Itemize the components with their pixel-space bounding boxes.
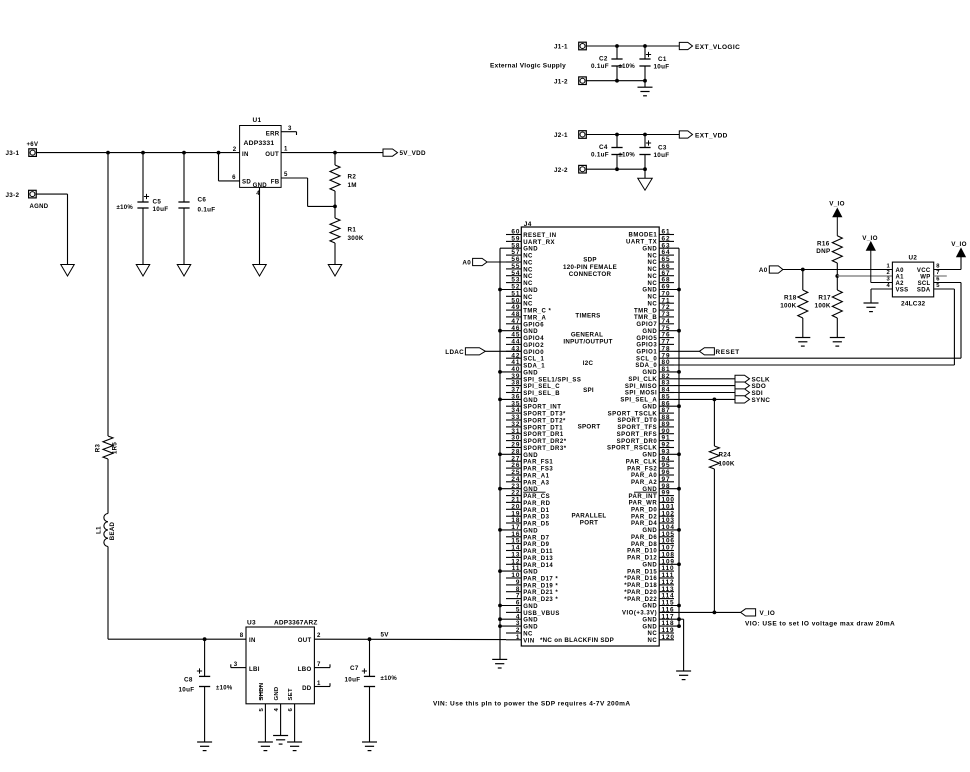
svg-text:+6V: +6V bbox=[27, 142, 39, 148]
J4 pin 98 GND bbox=[642, 483, 679, 493]
svg-text:1M: 1M bbox=[348, 182, 357, 189]
svg-text:24LC32: 24LC32 bbox=[901, 300, 926, 307]
wire 5V from U3 OUT to J4 VIN pin 1 bbox=[314, 638, 506, 640]
J4 pin 32 SPORT_DT1 bbox=[506, 421, 563, 431]
regulator U3 ADP3367ARZ body bbox=[246, 620, 318, 704]
svg-text:2: 2 bbox=[233, 146, 237, 153]
J4 pin 11 GND bbox=[500, 565, 538, 575]
svg-text:PAR_D10: PAR_D10 bbox=[627, 549, 657, 555]
J4 pin 84 SPI_MOSI bbox=[625, 387, 674, 397]
svg-text:10uF: 10uF bbox=[654, 152, 670, 159]
svg-text:NC: NC bbox=[523, 632, 533, 638]
svg-text:TMR_B: TMR_B bbox=[634, 315, 657, 321]
svg-text:SPORT_DT0: SPORT_DT0 bbox=[617, 418, 657, 424]
left ground bus of J4 bbox=[499, 248, 501, 659]
svg-text:*PAR_D22: *PAR_D22 bbox=[624, 597, 657, 603]
wire U2 VCC to V_IO bbox=[934, 257, 961, 270]
svg-text:C5: C5 bbox=[153, 199, 162, 206]
svg-text:SCL_1: SCL_1 bbox=[523, 357, 544, 363]
svg-text:PAR_D21 *: PAR_D21 * bbox=[523, 590, 558, 596]
J4 pin 1 VIN bbox=[506, 634, 535, 644]
power symbol V_IO at U2 VCC bbox=[951, 241, 967, 257]
J4 pin 51 NC bbox=[506, 290, 533, 300]
svg-text:R18: R18 bbox=[784, 295, 797, 302]
svg-text:V_IO: V_IO bbox=[951, 241, 967, 248]
J4 pin 24 PAR_A3 bbox=[506, 476, 550, 486]
J4 pin 82 SPI_CLK bbox=[628, 373, 674, 383]
svg-text:GND: GND bbox=[523, 288, 538, 294]
svg-text:V_IO: V_IO bbox=[862, 235, 878, 242]
svg-text:PAR_FS3: PAR_FS3 bbox=[523, 467, 553, 473]
J4 pin 97 PAR_A2 bbox=[631, 476, 674, 486]
svg-text:SPORT: SPORT bbox=[578, 423, 601, 430]
svg-text:GND: GND bbox=[642, 528, 657, 534]
svg-text:GPIO1: GPIO1 bbox=[636, 350, 657, 356]
flag RESET from J4 pin 78 GPIO1 bbox=[674, 348, 740, 356]
svg-text:PAR_D8: PAR_D8 bbox=[631, 542, 657, 548]
ground below R1 bbox=[328, 265, 342, 277]
svg-text:NC: NC bbox=[648, 638, 658, 644]
svg-text:SPI_SEL1/SPI_SS: SPI_SEL1/SPI_SS bbox=[523, 377, 581, 383]
wire J2-2 return bbox=[586, 168, 645, 170]
svg-text:VIO(+3.3V): VIO(+3.3V) bbox=[622, 611, 657, 617]
J4 pin 42 SCL_1 bbox=[506, 352, 545, 362]
svg-text:120-PIN FEMALE: 120-PIN FEMALE bbox=[563, 264, 617, 271]
connector J3-2 (AGND) bbox=[6, 190, 49, 210]
ground below U1 pin 4 bbox=[253, 265, 267, 277]
junction A1/R16/R17 bbox=[835, 274, 839, 278]
svg-text:PAR_A0: PAR_A0 bbox=[631, 473, 657, 479]
svg-text:LBO: LBO bbox=[298, 666, 312, 673]
J4 pin 91 SPORT_DR0 bbox=[617, 435, 674, 445]
svg-text:1R5: 1R5 bbox=[112, 442, 119, 454]
junction right bus pin 75 bbox=[677, 329, 681, 333]
J4 pin 39 SPI_SEL1/SPI_SS bbox=[506, 373, 581, 383]
J4 pin 75 GND bbox=[642, 325, 679, 335]
junction right bus pin 115 bbox=[677, 604, 681, 608]
svg-text:GND: GND bbox=[642, 453, 657, 459]
junction J1-1/C2 bbox=[615, 44, 619, 48]
svg-text:SPORT_DT2*: SPORT_DT2* bbox=[523, 419, 566, 425]
svg-text:CONNECTOR: CONNECTOR bbox=[569, 271, 612, 278]
svg-text:VCC: VCC bbox=[917, 268, 931, 274]
junction left bus pin 6 bbox=[498, 604, 502, 608]
svg-text:UART_TX: UART_TX bbox=[626, 240, 657, 246]
svg-text:NC: NC bbox=[648, 274, 658, 280]
svg-text:SCL: SCL bbox=[918, 281, 931, 287]
inductor L1 BEAD bbox=[96, 514, 116, 547]
resistor R2 1M bbox=[330, 153, 357, 207]
svg-text:100K: 100K bbox=[719, 461, 735, 468]
J4 pin 73 TMR_B bbox=[634, 311, 674, 321]
ground below C7 bbox=[362, 741, 377, 743]
svg-text:External Vlogic Supply: External Vlogic Supply bbox=[490, 63, 566, 70]
J4 pin 62 UART_TX bbox=[626, 236, 674, 246]
U3 GND pin 4 to ground bbox=[280, 704, 282, 736]
J4 pin 25 PAR_A1 bbox=[506, 469, 550, 479]
J4 pin 19 PAR_D3 bbox=[506, 510, 550, 520]
svg-text:A0: A0 bbox=[759, 267, 768, 274]
output flag SDO from J4 pin 83 bbox=[674, 382, 766, 390]
output flag SYNC from J4 pin 85 bbox=[674, 396, 770, 404]
svg-text:120: 120 bbox=[662, 634, 675, 641]
U2 pin numbers bbox=[886, 264, 940, 290]
wire V_IO to U2 pin 3 A2 bbox=[871, 282, 893, 284]
J4 pin 15 PAR_D9 bbox=[506, 538, 550, 548]
svg-text:2: 2 bbox=[317, 632, 321, 639]
junction right bus pin 86 bbox=[677, 404, 681, 408]
input flag A0 to U2 bbox=[759, 266, 783, 274]
junction J1-2/C1 bbox=[643, 79, 647, 83]
J4 pin 23 GND bbox=[500, 483, 538, 493]
svg-text:ADP3367ARZ: ADP3367ARZ bbox=[274, 620, 318, 627]
svg-text:LBI: LBI bbox=[249, 666, 260, 673]
J4 pin 87 SPORT_TSCLK bbox=[608, 407, 674, 417]
svg-text:10uF: 10uF bbox=[153, 206, 169, 213]
J4 pin 40 GND bbox=[500, 366, 538, 376]
junction A0/R18 bbox=[801, 268, 805, 272]
svg-text:NC: NC bbox=[648, 295, 658, 301]
J4 pin 27 PAR_FS1 bbox=[506, 455, 553, 465]
svg-text:0.1uF: 0.1uF bbox=[591, 63, 609, 70]
capacitor C1 10uF bbox=[639, 46, 669, 81]
J4 pin 120 NC bbox=[648, 634, 675, 644]
svg-text:NC: NC bbox=[523, 295, 533, 301]
svg-text:SDA_0: SDA_0 bbox=[635, 363, 657, 369]
wire SCL_0 route to U2 SCL bbox=[674, 283, 961, 359]
J4 pin 53 NC bbox=[506, 277, 533, 287]
svg-text:NC: NC bbox=[523, 261, 533, 267]
svg-text:PAR_D14: PAR_D14 bbox=[523, 563, 553, 569]
svg-text:V_IO: V_IO bbox=[829, 200, 845, 207]
J4 pin 61 BMODE1 bbox=[629, 229, 674, 239]
junction right bus pin 93 bbox=[677, 452, 681, 456]
svg-text:SPORT_TFS: SPORT_TFS bbox=[617, 425, 657, 431]
ground below left bus bbox=[492, 658, 507, 660]
svg-text:GPIO0: GPIO0 bbox=[523, 350, 544, 356]
svg-text:C3: C3 bbox=[658, 144, 667, 151]
svg-text:SD: SD bbox=[242, 179, 251, 186]
J4 pin 41 SDA_1 bbox=[506, 359, 545, 369]
svg-text:GND: GND bbox=[523, 329, 538, 335]
U3 LBO stub pin 7 bbox=[314, 664, 330, 667]
J4 pin 34 SPORT_DT3* bbox=[506, 407, 566, 417]
J4 pin 89 SPORT_TFS bbox=[617, 421, 674, 431]
svg-text:VSS: VSS bbox=[896, 287, 909, 293]
J4 pin 6 GND bbox=[500, 600, 538, 610]
resistor R16 DNP bbox=[816, 236, 842, 276]
svg-text:4: 4 bbox=[256, 190, 260, 197]
resistor R18 100K bbox=[780, 270, 808, 338]
J4 pin 92 SPORT_RSCLK bbox=[607, 442, 674, 452]
svg-text:FB: FB bbox=[271, 179, 280, 186]
svg-text:GPIO2: GPIO2 bbox=[523, 343, 544, 349]
J4 pin 85 SPI_SEL_A bbox=[620, 394, 674, 404]
J4 pin 109 GND bbox=[642, 558, 679, 568]
junction right bus pin 81 bbox=[677, 370, 681, 374]
J4 pin 114 *PAR_D22 bbox=[624, 593, 674, 603]
wire +6V net from J3-1 to U1 IN bbox=[36, 152, 240, 154]
J4 pin 68 NC bbox=[648, 277, 674, 287]
svg-text:TMR_C *: TMR_C * bbox=[523, 309, 551, 315]
svg-text:PAR_D15: PAR_D15 bbox=[627, 569, 657, 575]
svg-text:PAR_RD: PAR_RD bbox=[523, 501, 550, 507]
svg-text:PAR_A3: PAR_A3 bbox=[523, 480, 549, 486]
svg-text:PAR_FS2: PAR_FS2 bbox=[627, 466, 657, 472]
junction J2-2/C4 bbox=[615, 167, 619, 171]
svg-text:VIN: Use this pIn to power the: VIN: Use this pIn to power the SDP requi… bbox=[433, 700, 631, 707]
connector J2-1 bbox=[554, 131, 586, 139]
ground below C5 bbox=[136, 265, 150, 277]
J4 pin 8 PAR_D21 * bbox=[506, 586, 558, 596]
resistor R24 100K bbox=[709, 399, 735, 612]
J4 pin 7 PAR_D23 * bbox=[506, 593, 558, 603]
U3 SET pin 6 to ground bbox=[294, 704, 296, 742]
J4 pin 5 USB_VBUS bbox=[506, 607, 560, 617]
wire +6V vertical feed to U3 bbox=[107, 153, 109, 436]
junction left bus pin 3 bbox=[498, 624, 502, 628]
svg-text:ERR: ERR bbox=[266, 131, 280, 138]
svg-text:SCL_0: SCL_0 bbox=[636, 356, 657, 362]
J4 pin 22 PAR_CS bbox=[506, 490, 550, 500]
J4 pin 80 SDA_0 bbox=[635, 359, 674, 369]
svg-text:*PAR_D18: *PAR_D18 bbox=[624, 583, 657, 589]
svg-text:PAR_D9: PAR_D9 bbox=[523, 542, 549, 548]
svg-text:GND: GND bbox=[523, 370, 538, 376]
output flag SDI from J4 pin 84 bbox=[674, 389, 763, 397]
svg-text:C2: C2 bbox=[599, 56, 608, 63]
junction J2-1/C3 bbox=[643, 133, 647, 137]
svg-text:±10%: ±10% bbox=[216, 686, 233, 692]
svg-text:BEAD: BEAD bbox=[109, 521, 116, 540]
svg-text:TMR_D: TMR_D bbox=[634, 308, 657, 314]
svg-text:TMR_A: TMR_A bbox=[523, 315, 546, 321]
J4 pin 79 SCL_0 bbox=[636, 352, 674, 362]
svg-text:SPI_SEL_A: SPI_SEL_A bbox=[620, 398, 657, 404]
J4 pin 49 TMR_C * bbox=[506, 304, 552, 314]
J4 pin 71 NC bbox=[648, 297, 674, 307]
J4 pin 115 GND bbox=[642, 600, 679, 610]
U3 pin numbers bbox=[234, 632, 321, 712]
svg-text:7: 7 bbox=[936, 270, 940, 276]
svg-text:±10%: ±10% bbox=[619, 64, 636, 70]
svg-text:0.1uF: 0.1uF bbox=[591, 152, 609, 159]
svg-text:GND: GND bbox=[642, 604, 657, 610]
J4 pin 76 GPIO5 bbox=[636, 332, 674, 342]
svg-text:NC: NC bbox=[648, 267, 658, 273]
svg-text:BMODE1: BMODE1 bbox=[629, 233, 658, 239]
J4 pin 43 GPIO0 bbox=[506, 345, 544, 355]
svg-text:UART_RX: UART_RX bbox=[523, 240, 555, 246]
wire L1 to U3 IN bbox=[108, 547, 246, 640]
capacitor C6 0.1uF bbox=[178, 153, 215, 265]
svg-text:GND: GND bbox=[642, 624, 657, 630]
J4 pin 60 RESET_IN bbox=[506, 229, 557, 239]
J4 pin 72 TMR_D bbox=[634, 304, 674, 314]
junction J1-1/C1 bbox=[643, 44, 647, 48]
svg-text:SDA: SDA bbox=[917, 287, 931, 293]
J4 pin 70 NC bbox=[648, 290, 674, 300]
svg-text:1: 1 bbox=[516, 634, 520, 641]
svg-text:4: 4 bbox=[886, 283, 890, 289]
capacitor C2 0.1uF bbox=[591, 46, 635, 81]
J4 pin 117 GND bbox=[642, 613, 679, 623]
svg-text:EXT_VDD: EXT_VDD bbox=[695, 132, 728, 139]
svg-text:GND: GND bbox=[642, 563, 657, 569]
U1 pin 1 OUT wire to 5V_VDD bbox=[281, 146, 383, 153]
ground below C3 bbox=[638, 169, 653, 190]
junction IN wire / C8 bbox=[203, 637, 207, 641]
svg-text:PAR_D17 *: PAR_D17 * bbox=[523, 577, 558, 583]
wire A1 net to U2 pin 2 bbox=[837, 275, 892, 277]
svg-text:SPI_SEL_C: SPI_SEL_C bbox=[523, 384, 560, 390]
J4 pin 36 GND bbox=[500, 394, 538, 404]
U1 SD branch wire bbox=[219, 153, 240, 182]
svg-text:±10%: ±10% bbox=[619, 153, 636, 159]
svg-text:OUT: OUT bbox=[298, 637, 312, 644]
svg-text:8: 8 bbox=[240, 632, 244, 639]
ground below J3-2 bbox=[61, 265, 75, 277]
svg-text:U1: U1 bbox=[253, 117, 262, 124]
svg-text:GND: GND bbox=[642, 288, 657, 294]
svg-text:PAR_D11: PAR_D11 bbox=[523, 549, 553, 555]
svg-text:SPI_MISO: SPI_MISO bbox=[625, 384, 657, 390]
connector J3-1 (+6V input) bbox=[6, 142, 39, 157]
svg-text:L1: L1 bbox=[96, 526, 103, 534]
svg-text:5: 5 bbox=[936, 283, 940, 289]
J4 pin 4 GND bbox=[500, 613, 538, 623]
svg-text:SPORT_DT3*: SPORT_DT3* bbox=[523, 412, 566, 418]
output flag 5V_VDD bbox=[383, 149, 426, 157]
J4 pin 93 GND bbox=[642, 448, 679, 458]
J4 pin 111 *PAR_D16 bbox=[624, 572, 674, 582]
J4 pin 21 PAR_RD bbox=[506, 497, 551, 507]
junction +6V/C6 bbox=[182, 151, 186, 155]
J4 pin 103 PAR_D4 bbox=[631, 517, 675, 527]
svg-text:SPORT_DR1: SPORT_DR1 bbox=[523, 432, 564, 438]
J4 pin 59 UART_RX bbox=[506, 236, 555, 246]
svg-text:OUT: OUT bbox=[265, 151, 279, 158]
svg-text:6: 6 bbox=[232, 174, 236, 181]
svg-text:C8: C8 bbox=[184, 677, 193, 684]
svg-text:PAR_WR: PAR_WR bbox=[629, 501, 658, 507]
J4 pin 90 SPORT_RFS bbox=[617, 428, 674, 438]
J4 pin 14 PAR_D11 bbox=[506, 545, 553, 555]
J4 pin 52 GND bbox=[500, 284, 538, 294]
junction J2-1/C4 bbox=[615, 133, 619, 137]
svg-text:R16: R16 bbox=[817, 241, 830, 248]
svg-text:100K: 100K bbox=[815, 303, 831, 310]
svg-text:PAR_FS1: PAR_FS1 bbox=[523, 460, 553, 466]
svg-text:DD: DD bbox=[302, 685, 312, 692]
J4 pin 12 PAR_D14 bbox=[506, 558, 553, 568]
svg-text:3: 3 bbox=[886, 277, 890, 283]
ground below R17 bbox=[830, 337, 845, 339]
svg-text:SPORT_DT1: SPORT_DT1 bbox=[523, 425, 563, 431]
junction left bus pin 17 bbox=[498, 528, 502, 532]
svg-text:PAR_A1: PAR_A1 bbox=[523, 474, 549, 480]
svg-text:GND: GND bbox=[642, 329, 657, 335]
wire U2 WP stub bbox=[934, 275, 947, 277]
J4 pin 18 PAR_D5 bbox=[506, 517, 550, 527]
svg-text:GND: GND bbox=[523, 453, 538, 459]
svg-text:INPUT/OUTPUT: INPUT/OUTPUT bbox=[563, 339, 612, 346]
J4 pin 26 PAR_FS3 bbox=[506, 462, 553, 472]
svg-text:SPORT_INT: SPORT_INT bbox=[523, 405, 561, 411]
J4 pin 108 PAR_D12 bbox=[627, 552, 675, 562]
svg-text:NC: NC bbox=[523, 274, 533, 280]
svg-text:SPI: SPI bbox=[583, 387, 594, 394]
svg-text:GND: GND bbox=[523, 618, 538, 624]
svg-text:NC: NC bbox=[648, 260, 658, 266]
svg-text:SYNC: SYNC bbox=[752, 397, 771, 404]
power symbol V_IO at U2 A2 bbox=[862, 235, 878, 283]
svg-text:J2-1: J2-1 bbox=[554, 132, 568, 139]
svg-text:5: 5 bbox=[259, 708, 265, 712]
svg-text:R17: R17 bbox=[818, 295, 831, 302]
J4 pin 45 GPIO4 bbox=[506, 332, 544, 342]
svg-text:R24: R24 bbox=[719, 452, 732, 459]
wire U2 VSS to ground bbox=[871, 289, 892, 303]
svg-text:PAR_D12: PAR_D12 bbox=[627, 556, 657, 562]
svg-text:GND: GND bbox=[523, 398, 538, 404]
svg-text:GND: GND bbox=[642, 617, 657, 623]
resistor R3 1R5 bbox=[95, 436, 119, 459]
svg-text:PAR_D19 *: PAR_D19 * bbox=[523, 583, 558, 589]
svg-text:GPIO7: GPIO7 bbox=[636, 322, 657, 328]
svg-text:1: 1 bbox=[317, 680, 321, 687]
svg-text:J1-2: J1-2 bbox=[554, 78, 568, 85]
svg-text:5V: 5V bbox=[381, 632, 390, 639]
svg-text:PAR_D1: PAR_D1 bbox=[523, 508, 549, 514]
svg-text:VIN: VIN bbox=[523, 638, 535, 644]
capacitor C3 10uF bbox=[639, 135, 669, 170]
svg-text:ADP3331: ADP3331 bbox=[244, 140, 275, 147]
svg-text:SPI_MOSI: SPI_MOSI bbox=[625, 391, 657, 397]
svg-text:SPORT_RFS: SPORT_RFS bbox=[617, 432, 658, 438]
J4 pin 118 GND bbox=[642, 620, 679, 630]
junction right bus pin 104 bbox=[677, 528, 681, 532]
svg-text:C6: C6 bbox=[198, 197, 207, 204]
svg-text:100K: 100K bbox=[780, 303, 796, 310]
svg-text:J3-1: J3-1 bbox=[6, 150, 20, 157]
svg-text:J1-1: J1-1 bbox=[554, 44, 568, 51]
J4 pin 9 PAR_D19 * bbox=[506, 579, 558, 589]
svg-text:RESET: RESET bbox=[716, 349, 740, 356]
svg-text:GPIO5: GPIO5 bbox=[636, 336, 657, 342]
junction +6V/vertical feed bbox=[106, 151, 110, 155]
svg-text:PAR_D23 *: PAR_D23 * bbox=[523, 597, 558, 603]
junction right bus pin 118 bbox=[677, 624, 681, 628]
svg-text:SPORT_RSCLK: SPORT_RSCLK bbox=[607, 446, 657, 452]
svg-text:I2C: I2C bbox=[583, 360, 594, 367]
J4 pin 35 SPORT_INT bbox=[506, 400, 561, 410]
J4 pin 94 PAR_CLK bbox=[626, 455, 674, 465]
J4 pin 10 PAR_D17 * bbox=[506, 572, 558, 582]
output flag SCLK from J4 pin 82 bbox=[674, 375, 770, 383]
J4 pin 112 *PAR_D18 bbox=[624, 579, 674, 589]
svg-text:NC: NC bbox=[523, 267, 533, 273]
svg-text:USB_VBUS: USB_VBUS bbox=[523, 611, 560, 617]
wire R3 to L1 bbox=[107, 459, 109, 514]
U3 LBI stub pin 3 bbox=[231, 664, 246, 667]
wire A0 to U2 pin 1 bbox=[783, 269, 893, 271]
ground below U2 VSS bbox=[864, 302, 879, 304]
J4 pin 38 SPI_SEL_C bbox=[506, 380, 560, 390]
svg-text:GND: GND bbox=[523, 528, 538, 534]
J4 pin 106 PAR_D8 bbox=[631, 538, 675, 548]
wire J2-1 to EXT_VDD bbox=[586, 134, 679, 136]
